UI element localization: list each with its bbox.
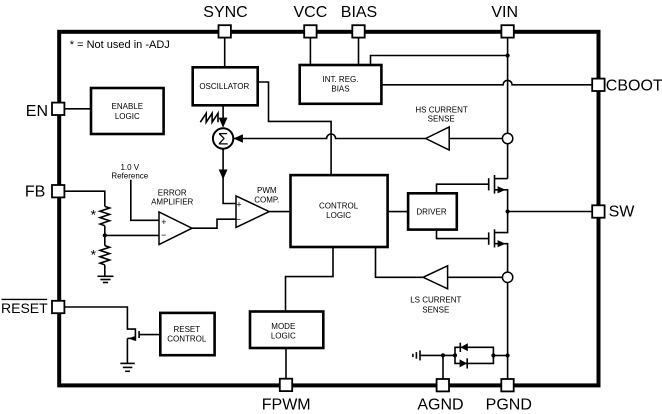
wire FB pin to divider	[64, 191, 104, 206]
pin FB	[52, 185, 64, 197]
ground AGND chassis symbol	[413, 350, 420, 360]
wire diode loop	[455, 347, 493, 363]
node FB divider tap	[103, 233, 107, 237]
wire SYNC to oscillator	[224, 38, 226, 68]
svg-text:BIAS: BIAS	[341, 4, 377, 21]
svg-text:* = Not used in -ADJ: * = Not used in -ADJ	[70, 39, 170, 51]
wire LS sense output to control logic bottom	[376, 247, 424, 277]
wire HS sense circle to HS drain	[507, 144, 509, 179]
svg-text:BIAS: BIAS	[331, 85, 349, 94]
op-amp error amplifier	[159, 212, 192, 245]
pin PGND	[501, 379, 513, 391]
node AGND junction	[441, 353, 445, 357]
svg-text:FB: FB	[25, 184, 45, 201]
transistor HS FET	[489, 175, 508, 212]
pin RESET	[52, 301, 64, 313]
wire CBOOT line with hop	[381, 80, 592, 84]
adder sigma circle	[213, 128, 233, 148]
wire VIN rail down to HS sense circle	[507, 38, 509, 134]
wire HS sense output into sigma with hop	[234, 134, 426, 139]
node SW junction	[506, 209, 510, 213]
svg-text:−: −	[161, 230, 166, 240]
ground reset FET	[120, 363, 135, 371]
wire driver to HS gate	[437, 184, 489, 193]
svg-text:ENABLE: ENABLE	[112, 102, 144, 111]
svg-text:SYNC: SYNC	[203, 4, 247, 21]
node VIN junction	[506, 53, 510, 57]
svg-text:−: −	[236, 214, 241, 224]
wire driver to LS gate	[437, 230, 489, 239]
op-amp PWM comparator	[236, 196, 270, 228]
pin FPWM	[280, 379, 292, 391]
wire tap to error amp minus input	[105, 234, 159, 236]
svg-text:+: +	[236, 200, 241, 210]
svg-text:DRIVER: DRIVER	[416, 208, 446, 217]
block RESET CONTROL	[160, 313, 214, 355]
block INT. REG. BIAS	[300, 65, 382, 104]
wire lower resistor to ground	[104, 265, 106, 276]
pin EN	[52, 103, 64, 115]
wire sigma to PWM comparator plus input	[223, 149, 236, 204]
pin AGND	[437, 379, 449, 391]
amp HS current sense	[415, 105, 502, 150]
svg-text:ERROR: ERROR	[158, 188, 187, 197]
pin VCC	[304, 25, 316, 37]
pin BIAS	[352, 25, 364, 37]
wire AGND net	[420, 354, 455, 356]
wire RESET pin to FET drain	[64, 307, 135, 329]
svg-text:OSCILLATOR: OSCILLATOR	[199, 82, 249, 91]
svg-text:CBOOT: CBOOT	[606, 78, 662, 95]
amp LS current sense	[410, 266, 502, 315]
svg-text:PGND: PGND	[486, 397, 532, 414]
wire error amp output to PWM comp minus	[192, 219, 236, 228]
svg-text:Σ: Σ	[218, 130, 229, 149]
block MODE LOGIC	[250, 312, 323, 349]
svg-text:LOGIC: LOGIC	[115, 112, 140, 121]
svg-text:RESET: RESET	[1, 300, 48, 316]
wire reference to error amp plus input	[131, 180, 159, 221]
svg-text:LS CURRENT: LS CURRENT	[410, 296, 461, 305]
sense tap circle HS	[502, 133, 512, 143]
svg-text:PWM: PWM	[257, 186, 277, 195]
wire FET source to ground	[126, 338, 128, 363]
svg-text:RESET: RESET	[173, 325, 200, 334]
resistor R upper	[100, 206, 110, 225]
svg-text:AMPLIFIER: AMPLIFIER	[151, 197, 193, 206]
wire BIAS to int reg bias	[358, 38, 360, 65]
node PGND rail junction	[506, 353, 510, 357]
svg-text:CONTROL: CONTROL	[319, 201, 359, 210]
wire PWM comp output to control logic	[269, 211, 290, 213]
svg-text:Reference: Reference	[111, 172, 148, 181]
svg-text:INT. REG.: INT. REG.	[322, 75, 358, 84]
svg-text:SW: SW	[609, 203, 636, 220]
block ENABLE LOGIC	[91, 88, 164, 134]
IC boundary box	[59, 32, 598, 386]
svg-text:1.0 V: 1.0 V	[120, 163, 139, 172]
wire between resistors	[104, 226, 106, 246]
wire VIN to int reg bias top	[371, 56, 508, 66]
svg-text:SENSE: SENSE	[428, 114, 455, 123]
svg-text:SENSE: SENSE	[422, 305, 449, 314]
wire oscillator output to control logic top	[258, 82, 331, 175]
sense tap circle LS	[502, 272, 512, 282]
svg-text:VCC: VCC	[294, 4, 328, 21]
block OSCILLATOR	[193, 67, 258, 105]
pin SW	[592, 205, 604, 217]
wire control logic to mode logic	[286, 247, 334, 312]
svg-text:AGND: AGND	[417, 397, 463, 414]
block DRIVER	[408, 193, 457, 229]
label RESET with overline	[1, 299, 48, 316]
ground divider	[98, 276, 114, 282]
wire SW node to SW pin	[508, 211, 593, 213]
wire mode logic to FPWM pin	[285, 348, 287, 379]
wire oscillator to sigma adder	[222, 105, 224, 126]
pin CBOOT	[592, 79, 604, 91]
svg-text:LOGIC: LOGIC	[326, 211, 351, 220]
svg-text:VIN: VIN	[491, 4, 518, 21]
node diode loop left	[453, 353, 457, 357]
svg-text:HS CURRENT: HS CURRENT	[415, 105, 468, 114]
wire EN pin to enable logic	[64, 108, 91, 110]
svg-text:CONTROL: CONTROL	[167, 334, 207, 343]
svg-text:LOGIC: LOGIC	[271, 331, 296, 340]
transistor LS FET	[489, 212, 508, 273]
wire VCC to int reg bias	[309, 38, 311, 65]
transistor reset open drain FET	[127, 328, 160, 341]
svg-text:*: *	[91, 247, 97, 263]
wire AGND node to AGND pin	[442, 355, 444, 379]
svg-text:COMP.: COMP.	[254, 195, 279, 204]
pin VIN	[501, 25, 513, 37]
svg-text:FPWM: FPWM	[262, 396, 311, 413]
pin SYNC	[219, 25, 231, 37]
diode D1 upper	[460, 343, 468, 352]
diode D2 lower	[460, 358, 468, 368]
svg-text:*: *	[91, 207, 97, 223]
wire loop to PGND rail	[493, 355, 507, 357]
wire control logic to driver	[388, 211, 409, 213]
svg-text:MODE: MODE	[271, 322, 295, 331]
sawtooth ramp symbol	[200, 113, 218, 122]
resistor R lower	[100, 246, 110, 265]
svg-text:+: +	[161, 217, 166, 227]
wire LS source rail down to PGND	[507, 283, 509, 380]
block CONTROL LOGIC	[291, 175, 388, 247]
node diode loop right	[491, 353, 495, 357]
svg-text:EN: EN	[26, 103, 48, 120]
